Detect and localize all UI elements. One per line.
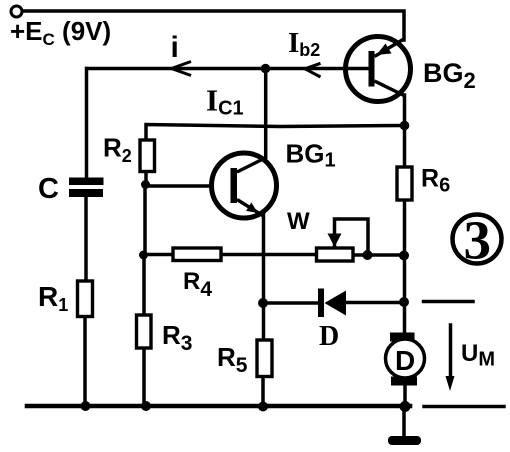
svg-text:R6: R6 bbox=[421, 165, 450, 197]
svg-text:3: 3 bbox=[464, 210, 492, 271]
svg-text:R1: R1 bbox=[38, 281, 68, 315]
svg-text:+EC (9V): +EC (9V) bbox=[10, 16, 111, 49]
svg-text:BG1: BG1 bbox=[286, 139, 336, 172]
svg-text:i: i bbox=[171, 31, 179, 64]
svg-text:R4: R4 bbox=[183, 268, 212, 301]
svg-text:D: D bbox=[395, 345, 415, 376]
svg-text:R5: R5 bbox=[217, 342, 248, 377]
svg-text:R3: R3 bbox=[162, 320, 192, 355]
svg-text:C: C bbox=[38, 173, 59, 205]
svg-text:R2: R2 bbox=[103, 133, 132, 167]
svg-text:IC1: IC1 bbox=[206, 83, 244, 120]
svg-text:UM: UM bbox=[461, 340, 495, 371]
svg-text:D: D bbox=[319, 321, 339, 352]
svg-text:W: W bbox=[287, 208, 310, 235]
svg-text:BG2: BG2 bbox=[423, 58, 476, 93]
svg-text:Ib2: Ib2 bbox=[288, 27, 320, 60]
